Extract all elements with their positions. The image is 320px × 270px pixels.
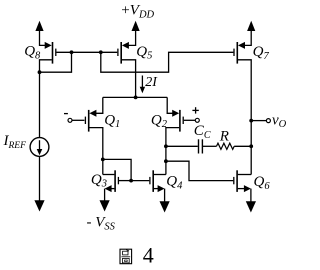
svg-text:Q5: Q5 — [136, 44, 152, 62]
svg-text:2I: 2I — [145, 75, 158, 90]
svg-text:IREF: IREF — [3, 133, 27, 151]
svg-text:Q1: Q1 — [104, 112, 120, 130]
svg-text:R: R — [219, 128, 229, 144]
svg-text:4: 4 — [143, 243, 154, 268]
svg-text:CC: CC — [194, 123, 211, 141]
svg-text:vO: vO — [272, 113, 287, 130]
svg-text:- VSS: - VSS — [87, 215, 116, 233]
svg-text:Q6: Q6 — [254, 174, 271, 192]
svg-text:Q2: Q2 — [151, 112, 168, 130]
svg-text:Q7: Q7 — [253, 44, 270, 62]
svg-text:+VDD: +VDD — [121, 3, 154, 21]
svg-text:Q4: Q4 — [166, 174, 183, 192]
svg-text:Q8: Q8 — [24, 44, 41, 62]
